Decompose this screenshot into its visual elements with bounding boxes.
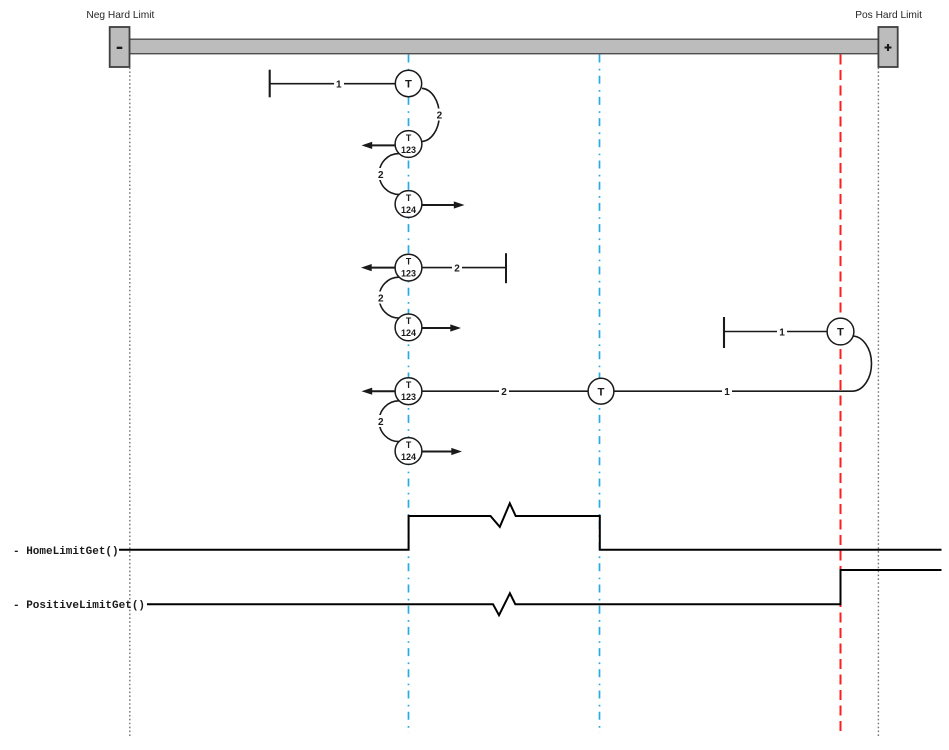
svg-text:2: 2	[378, 170, 384, 181]
node T124 seq2	[395, 314, 422, 341]
HomeLimitGet waveform	[119, 503, 942, 550]
home switch left line (cyan dash-dot)	[408, 55, 410, 734]
node T mid	[588, 378, 614, 404]
node T123 seq2	[395, 254, 422, 281]
arc seq3 to T124	[376, 401, 399, 442]
svg-text:T: T	[406, 133, 412, 143]
svg-text:1: 1	[779, 328, 785, 339]
arrow left seq2	[361, 264, 395, 271]
arrow right seq1	[422, 201, 464, 208]
start tick right	[723, 317, 725, 348]
neg limit reference line (dotted)	[129, 68, 131, 739]
arrow right seq2	[422, 324, 461, 331]
start tick 1	[269, 70, 271, 98]
svg-text:2: 2	[437, 110, 443, 121]
svg-text:T: T	[405, 79, 412, 91]
turn arc right	[852, 336, 872, 391]
svg-text:123: 123	[401, 268, 416, 278]
svg-text:T: T	[406, 193, 412, 203]
arc seq1 to T124	[376, 154, 399, 195]
pos hard limit block	[878, 27, 897, 67]
node T124 seq1	[395, 191, 422, 218]
end tick seq2	[505, 253, 507, 283]
neg hard limit block	[110, 27, 130, 67]
svg-text:2: 2	[378, 417, 384, 428]
svg-text:124: 124	[401, 452, 416, 462]
svg-text:123: 123	[401, 392, 416, 402]
svg-text:1: 1	[336, 80, 342, 91]
arrow left seq1	[362, 142, 395, 149]
svg-text:1: 1	[724, 387, 730, 398]
svg-text:T: T	[406, 256, 412, 266]
svg-text:T: T	[406, 380, 412, 390]
home switch right line (cyan dash-dot)	[599, 55, 601, 734]
svg-text:2: 2	[378, 293, 384, 304]
positive limit line (red dashed)	[840, 55, 842, 732]
svg-text:Pos Hard Limit: Pos Hard Limit	[855, 10, 922, 21]
svg-text:124: 124	[401, 328, 416, 338]
PositiveLimitGet waveform	[147, 570, 942, 615]
svg-text:T: T	[598, 386, 605, 398]
svg-text:123: 123	[401, 145, 416, 155]
svg-text:- PositiveLimitGet(): - PositiveLimitGet()	[13, 600, 145, 612]
svg-text:2: 2	[501, 387, 507, 398]
svg-text:124: 124	[401, 205, 416, 215]
wire seg 3-1	[724, 326, 835, 339]
wire seg 1-1	[270, 78, 400, 91]
svg-text:T: T	[406, 316, 412, 326]
arrow left seq3	[362, 388, 395, 395]
arrow right seq3	[422, 448, 462, 455]
svg-text:T: T	[406, 440, 412, 450]
wire seg 3-3	[412, 386, 601, 399]
arc seq2 to T124	[376, 277, 399, 318]
pos limit reference line (dotted)	[877, 68, 879, 739]
svg-text:Neg Hard Limit: Neg Hard Limit	[86, 10, 154, 21]
rail bar	[130, 39, 879, 54]
wire seg 2-2	[410, 262, 506, 275]
svg-text:T: T	[837, 327, 844, 339]
node T right	[827, 318, 854, 345]
node T123 seq1	[395, 131, 422, 158]
svg-text:- HomeLimitGet(): - HomeLimitGet()	[13, 546, 119, 558]
wire seg 3-2	[605, 386, 852, 399]
node T start 1	[395, 70, 421, 96]
svg-text:2: 2	[454, 264, 460, 275]
node T124 seq3	[395, 438, 422, 465]
arc seg 1-2	[422, 88, 444, 141]
node T123 seq3	[395, 378, 422, 405]
